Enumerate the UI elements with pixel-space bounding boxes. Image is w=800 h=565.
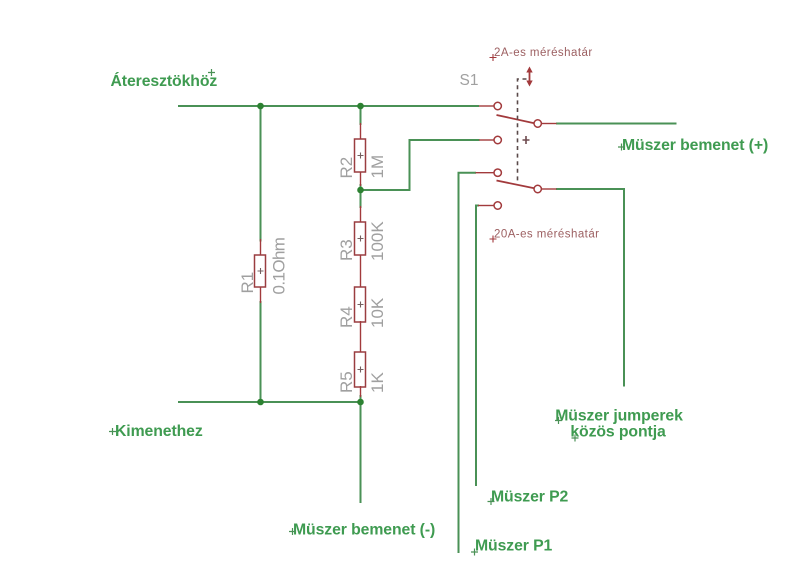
- svg-text:közös pontja: közös pontja: [570, 424, 666, 441]
- label 2A-es méréshatár: [490, 47, 593, 61]
- svg-text:R4: R4: [337, 306, 356, 328]
- svg-text:20A-es méréshatár: 20A-es méréshatár: [494, 229, 599, 241]
- svg-text:Müszer P1: Müszer P1: [475, 538, 553, 555]
- wire junction to switch pole 2: [361, 140, 480, 190]
- net label Müszer P2: [488, 489, 569, 506]
- lever 1: [497, 115, 535, 123]
- svg-text:1M: 1M: [368, 155, 387, 179]
- wire R2 to junction: [360, 184, 362, 208]
- switch S1: [460, 67, 557, 210]
- actuator dashed link: [518, 79, 527, 181]
- svg-text:Müszer bemenet (+): Müszer bemenet (+): [622, 137, 768, 154]
- wire R1 lower vertical: [260, 301, 262, 402]
- wire switch contact 4 to Müszer P2: [476, 206, 479, 487]
- pin contact 4: [478, 205, 494, 207]
- pin pole 3: [476, 172, 494, 174]
- contact circle 1: [494, 102, 501, 109]
- svg-text:Müszer jumperek: Müszer jumperek: [555, 408, 683, 425]
- svg-text:R2: R2: [337, 157, 356, 179]
- svg-text:S1: S1: [460, 72, 479, 89]
- wire R5 to bottom: [360, 395, 362, 402]
- wire bottom horizontal net Kimenethez: [178, 401, 361, 403]
- net label Áteresztökhöz: [111, 69, 218, 90]
- svg-text:Áteresztökhöz: Áteresztökhöz: [111, 71, 218, 90]
- svg-text:R3: R3: [337, 239, 356, 261]
- resistor R1: [238, 237, 289, 303]
- contact circle throw 2: [534, 185, 541, 192]
- net label Müszer bemenet (-): [289, 522, 435, 539]
- junction node top chain: [357, 103, 364, 110]
- pin throw 1: [542, 123, 557, 125]
- resistor R4: [337, 287, 387, 353]
- svg-text:R1: R1: [238, 272, 257, 294]
- plus marker: [523, 136, 530, 144]
- wire switch throw 1 to Müszer bemenet (+): [556, 123, 677, 125]
- pin pole 2: [479, 139, 494, 141]
- svg-text:10K: 10K: [368, 297, 387, 328]
- wire switch throw 2 to Müszer jumperek közös pontja: [556, 189, 624, 387]
- svg-text:100K: 100K: [368, 221, 387, 261]
- wire R1 branch vertical: [260, 106, 262, 242]
- svg-text:2A-es méréshatár: 2A-es méréshatár: [494, 47, 593, 59]
- net label Müszer bemenet (+): [618, 137, 768, 154]
- svg-text:R5: R5: [337, 371, 356, 393]
- contact circle 3: [494, 169, 501, 176]
- junction node bottom chain: [357, 399, 364, 406]
- junction node top R1: [257, 103, 264, 110]
- contact circle throw 1: [534, 120, 541, 127]
- net label Kimenethez: [109, 423, 203, 440]
- wire Müszer bemenet (-) vertical: [360, 402, 362, 503]
- pin pole 1: [479, 105, 494, 107]
- resistor R5: [337, 352, 387, 397]
- svg-text:Kimenethez: Kimenethez: [115, 423, 203, 440]
- svg-text:1K: 1K: [368, 372, 387, 393]
- resistor R3: [337, 206, 387, 288]
- contact circle 2: [494, 136, 501, 143]
- net label Müszer jumperek közös pontja: [555, 408, 683, 442]
- actuator double arrow: [526, 67, 532, 87]
- net label Müszer P1: [471, 538, 553, 556]
- junction node below R2: [357, 187, 364, 194]
- label 20A-es méréshatár: [490, 229, 600, 243]
- svg-text:Müszer P2: Müszer P2: [491, 489, 569, 506]
- pin throw 2: [542, 188, 557, 190]
- wire top horizontal net Áteresztökhöz: [178, 105, 479, 107]
- wire switch pole 3 to Müszer P1: [459, 173, 477, 553]
- junction node bottom R1: [257, 399, 264, 406]
- resistor R2: [337, 123, 387, 186]
- lever 2: [497, 181, 535, 189]
- contact circle 4: [494, 202, 501, 209]
- wire resistor chain top: [360, 106, 362, 125]
- svg-text:Müszer bemenet (-): Müszer bemenet (-): [293, 522, 435, 539]
- svg-text:0.1Ohm: 0.1Ohm: [270, 237, 289, 294]
